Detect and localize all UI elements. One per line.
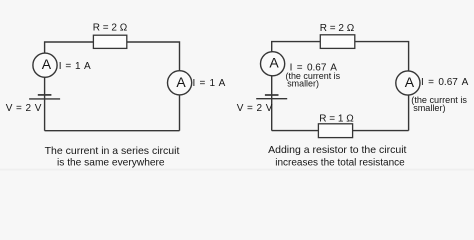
battery V = 2 V (right circuit): long plate (256, 98, 287, 100)
svg-text:R = 2 Ω: R = 2 Ω (320, 23, 355, 34)
wire: left circuit top-left segment (45, 42, 94, 53)
resistor R = 1 ohm (right circuit, bottom) (318, 124, 352, 138)
battery V = 2 V (right circuit): short plate (265, 94, 279, 96)
wire: left circuit top-right segment (127, 42, 180, 71)
bottom shadow band (0, 169, 474, 171)
battery V = 2 V (left circuit): long plate (29, 98, 60, 100)
wire: right circuit top-left segment (272, 42, 321, 52)
svg-text:R = 2 Ω: R = 2 Ω (93, 23, 128, 34)
svg-text:A: A (42, 56, 52, 72)
svg-text:is the same everywhere: is the same everywhere (57, 157, 165, 168)
svg-text:smaller): smaller) (413, 103, 445, 113)
ammeter A2 (left circuit, right) (168, 71, 192, 95)
wire: right circuit top-right segment (355, 42, 409, 72)
svg-text:R = 1 Ω: R = 1 Ω (319, 114, 354, 125)
svg-text:I = 1 A: I = 1 A (59, 61, 91, 72)
wire: left circuit right vertical lower (179, 95, 181, 131)
resistor R = 2 ohm (left circuit, top) (93, 35, 126, 48)
svg-text:I = 0.67 A: I = 0.67 A (421, 77, 469, 88)
svg-text:A: A (176, 74, 186, 90)
wire: right circuit bottom-right segment (353, 130, 409, 132)
ammeter A3 (right circuit, left) (261, 52, 285, 76)
ammeter A1 (left circuit, left) (33, 53, 57, 77)
ammeter A4 (right circuit, right) (396, 71, 420, 95)
svg-text:smaller): smaller) (287, 78, 319, 88)
svg-text:V = 2 V: V = 2 V (237, 103, 273, 114)
svg-text:increases the total resistance: increases the total resistance (275, 157, 405, 168)
wire: right circuit bottom-left segment (272, 130, 319, 132)
battery V = 2 V (left circuit): short plate (38, 94, 52, 96)
svg-text:V = 2 V: V = 2 V (6, 103, 42, 114)
svg-text:I = 1 A: I = 1 A (193, 78, 226, 89)
resistor R = 2 ohm (right circuit, top) (320, 35, 355, 49)
svg-text:A: A (405, 74, 415, 90)
wire: right circuit right vertical lower (408, 95, 410, 131)
wire: right circuit left vertical through battery (271, 76, 273, 131)
svg-text:The current in a series circui: The current in a series circuit (45, 145, 180, 157)
svg-text:Adding a resistor to the circu: Adding a resistor to the circuit (268, 144, 406, 156)
wire: left circuit left vertical through battery (44, 77, 46, 131)
svg-text:A: A (269, 55, 279, 71)
wire: left circuit bottom (45, 130, 180, 132)
